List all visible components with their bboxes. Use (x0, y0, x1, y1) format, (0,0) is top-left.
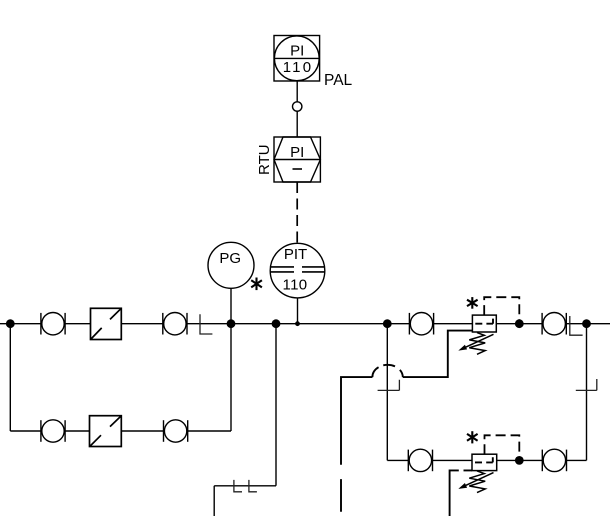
svg-text:110: 110 (283, 59, 314, 76)
svg-text:PAL: PAL (324, 72, 353, 89)
svg-text:RTU: RTU (256, 144, 273, 175)
svg-text:PI: PI (290, 144, 304, 161)
svg-text:PG: PG (219, 250, 241, 267)
svg-text:110: 110 (282, 277, 307, 294)
svg-text:PIT: PIT (284, 246, 307, 263)
svg-text:PI: PI (290, 42, 304, 59)
